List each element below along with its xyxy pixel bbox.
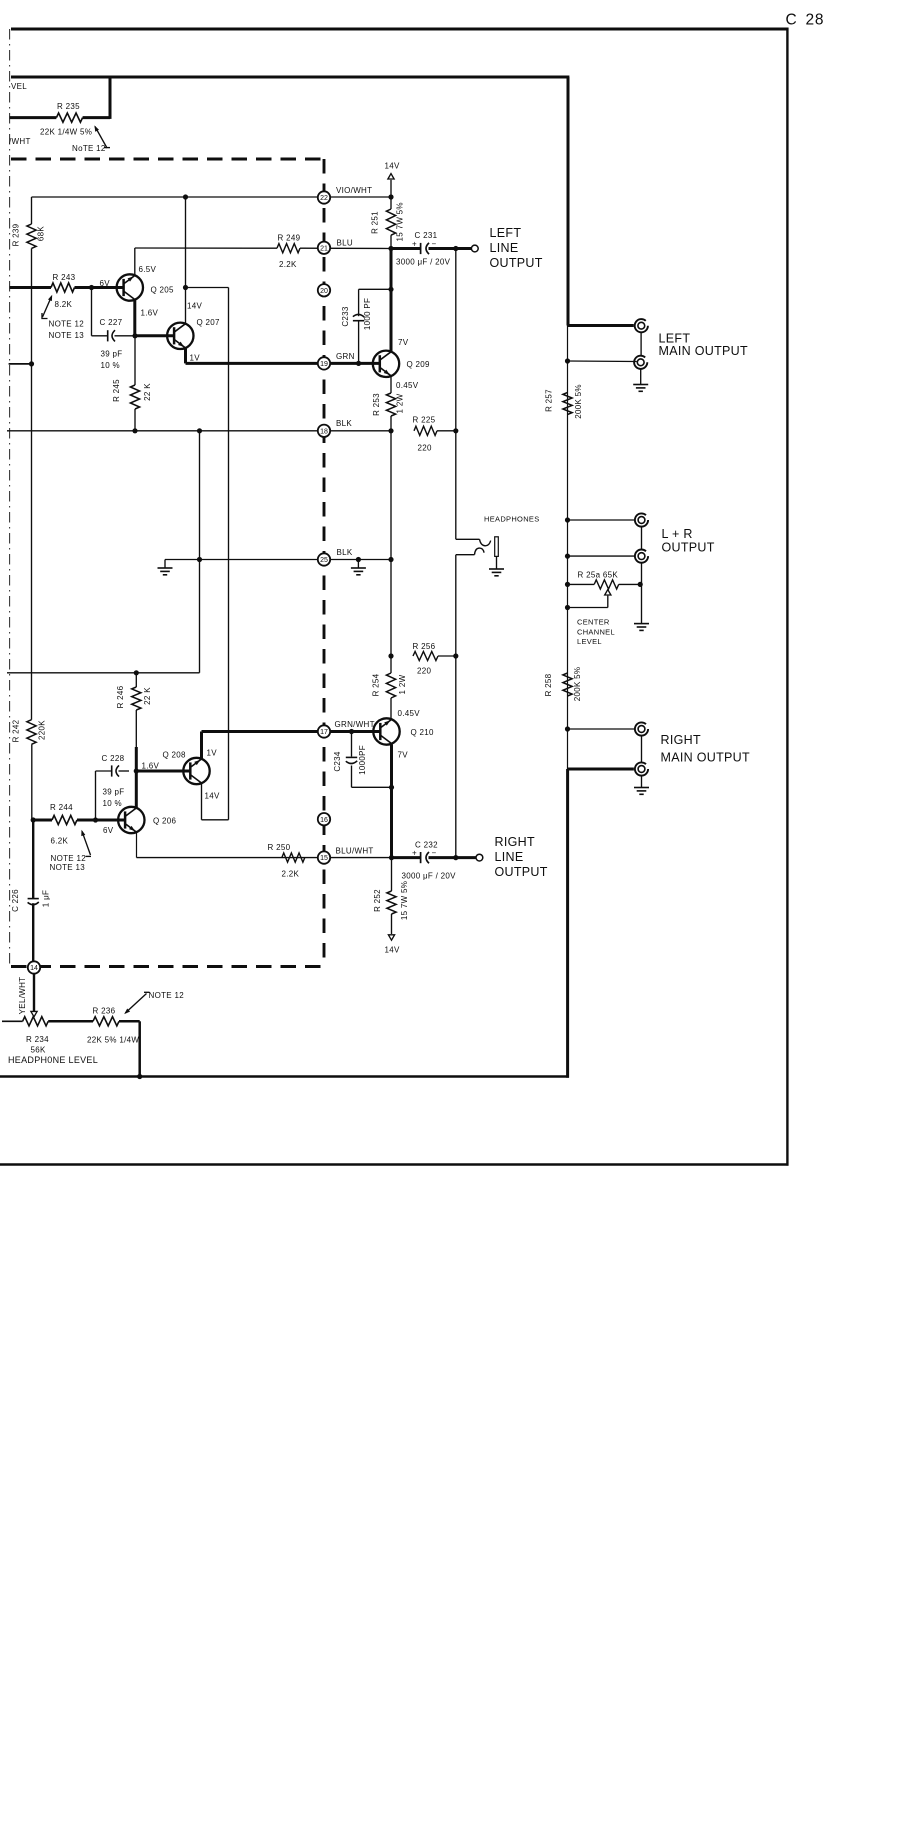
wire RIGHT MAIN hot [568,768,634,771]
label Q208 1V [207,749,218,758]
svg-text:R 251: R 251 [371,211,380,234]
svg-text:OUTPUT: OUTPUT [495,865,548,879]
svg-text:2.2K: 2.2K [282,870,300,879]
node junction L+R top [565,517,570,522]
label Q209 7V [398,338,409,347]
svg-text:R 225: R 225 [413,416,436,425]
label C231 value [396,258,451,267]
label NOTE12 Q206 [51,854,87,863]
label C233 value [363,298,372,330]
node junction pot right [638,582,643,587]
node terminal 19 [318,357,330,369]
svg-text:LINE: LINE [495,850,524,864]
power 14V arrow bottom [388,935,394,940]
svg-text:6V: 6V [100,279,111,288]
svg-text:1000PF: 1000PF [358,745,367,775]
wire pot wiper [568,590,611,608]
transistor Q205 [117,274,143,300]
label R258 name [544,673,553,696]
capacitor C228 [96,765,130,776]
svg-text:R 252: R 252 [373,889,382,912]
svg-text:+: + [412,848,417,857]
svg-text:25: 25 [320,557,328,564]
svg-text:14V: 14V [187,302,202,311]
resistor R242 [27,720,36,745]
label R236 value [87,1036,139,1045]
transistor Q210 [373,718,399,744]
svg-text:LEFT: LEFT [490,226,522,240]
label C227 39pF [101,350,123,359]
svg-text:NOTE 12: NOTE 12 [49,320,85,329]
svg-text:1.6V: 1.6V [141,309,159,318]
wire L+R top [568,519,636,521]
svg-text:16: 16 [320,817,328,824]
wire NOTE leader Q205 [42,295,52,319]
svg-text:R 246: R 246 [116,685,125,708]
wire NOTE12 leader [94,125,110,148]
label NOTE13 Q206 [50,863,86,872]
svg-text:3000 μF / 20V: 3000 μF / 20V [396,258,451,267]
label Q205 6V [100,279,111,288]
label R225 value [418,443,432,452]
label BLK 18 [336,419,352,428]
node junction gnd right [356,557,361,562]
wire l+r jack link [641,527,643,550]
wire headphone vertical upper [455,249,457,540]
wire BLU/WHT line [137,857,392,859]
label RIGHT MAIN OUTPUT [661,733,750,765]
transistor Q207 [167,323,193,349]
label GRN/WHT [335,720,375,729]
svg-text:C 232: C 232 [415,841,438,850]
label R235 value [40,128,92,137]
node junction gnd drop [197,428,202,433]
ground LEFT MAIN [633,369,648,391]
wire left main jack link [640,333,642,356]
node junction C231 out [453,246,458,251]
label Q207 name [197,318,221,327]
resistor R236 [48,1017,140,1026]
label R250 name [268,843,291,852]
wire right bus lower thick [566,769,569,1078]
resistor R257 [563,393,572,415]
svg-text:1000 PF: 1000 PF [363,298,372,330]
resistor R253 [386,376,395,431]
label R243 name [53,273,76,282]
svg-text:R 236: R 236 [93,1007,116,1016]
svg-text:OUTPUT: OUTPUT [662,541,715,555]
label Q205 6.5V [139,265,157,274]
node terminal 22 [318,191,330,203]
node terminal 14 [28,961,40,973]
svg-text:Q 210: Q 210 [411,728,435,737]
svg-text:2.2K: 2.2K [279,260,297,269]
label Q210 name [411,728,435,737]
svg-text:L + R: L + R [662,527,693,541]
jack L+R bottom [635,550,648,563]
label C232 plus [412,848,417,857]
node junction R246 top [134,670,139,675]
node junction left main gnd [565,358,570,363]
capacitor C226 [28,820,39,961]
resistor R249 [277,244,300,253]
wire right border [786,28,788,1166]
label Q205 name [151,286,175,295]
svg-text:Q 209: Q 209 [407,360,431,369]
power 14V arrow top [388,174,394,197]
svg-text:6V: 6V [103,826,114,835]
node junction R251 top [388,194,393,199]
svg-text:22 K: 22 K [143,687,152,705]
svg-text:1.6V: 1.6V [142,761,160,770]
svg-text:21: 21 [320,245,328,252]
svg-text:1V: 1V [207,749,218,758]
node junction R244 left [31,817,36,822]
svg-text:NOTE 12: NOTE 12 [51,854,87,863]
svg-text:22 K: 22 K [143,383,152,401]
svg-text:R 239: R 239 [12,223,21,246]
resistor R239 [27,224,36,248]
wire BLK line 25 [165,559,391,561]
node junction pot left [565,582,570,587]
transistor Q208 [183,758,209,784]
label R252 name [373,889,382,912]
label Q206 name [153,817,177,826]
potentiometer R25a [568,580,641,589]
label Q207 14V [187,302,202,311]
label NOTE13 Q205 [49,331,85,340]
node junction bottom bus [137,1074,142,1079]
wire 14V drop upper [185,197,187,288]
svg-text:0.45V: 0.45V [398,709,421,718]
svg-text:C233: C233 [341,306,350,327]
svg-text:7V: 7V [398,751,409,760]
wire 14V to Q208 [202,819,229,821]
label RIGHT LINE OUTPUT [495,835,548,879]
label R246 name [116,685,125,708]
label C232 name [415,841,438,850]
svg-text:1 2W: 1 2W [396,393,405,413]
svg-text:Q 206: Q 206 [153,817,177,826]
svg-text:56K: 56K [31,1046,46,1055]
label R243 value [55,300,73,309]
label Q206 6V [103,826,114,835]
node junction gnd line [197,557,202,562]
capacitor C227 [92,330,136,341]
label NOTE12 R236 [149,991,185,1000]
resistor R244 [33,815,125,824]
jack RIGHT MAIN gnd [635,722,648,735]
svg-text:BLU/WHT: BLU/WHT [336,846,374,855]
label C233 name [341,306,350,327]
svg-text:RIGHT: RIGHT [661,733,701,747]
svg-text:CHANNEL: CHANNEL [577,627,615,636]
svg-text:C 227: C 227 [100,318,123,327]
wire right bus middle [567,326,569,770]
svg-text:14: 14 [30,965,38,972]
wire LEFT MAIN gnd [568,360,637,363]
svg-text:10 %: 10 % [103,799,122,808]
label C228 10pct [103,799,122,808]
svg-text:C 231: C 231 [415,231,438,240]
label GRN [336,352,355,361]
wire R254 column [390,431,392,673]
wire Q207 collector [185,288,187,325]
node junction 14V rail [183,194,188,199]
wire RIGHT MAIN gnd [568,728,636,730]
label R242 value [38,720,47,740]
resistor R245 [130,336,139,431]
label R249 name [278,233,301,242]
label R246 value [143,687,152,705]
capacitor C234 [346,732,392,788]
label L+R OUTPUT [662,527,715,555]
svg-text:R 243: R 243 [53,273,76,282]
svg-text:15: 15 [320,855,328,862]
label R25a [578,571,619,580]
node junction R256 right [453,653,458,658]
svg-text:NOTE 12: NOTE 12 [149,991,185,1000]
svg-text:LINE: LINE [490,241,519,255]
wire GRN emitter line [186,362,380,365]
node junction C233 bottom [356,361,361,366]
svg-text:14V: 14V [205,792,220,801]
label R250 value [282,870,300,879]
node terminal 17 [318,725,330,737]
wire Q208 emitter [200,732,203,760]
label C234 value [358,745,367,775]
label R234 value [31,1046,46,1055]
label R258 value [573,667,582,702]
wire dashed module box top [11,158,326,161]
wire Q205 collector up [134,248,136,276]
svg-text:22K 1/4W 5%: 22K 1/4W 5% [40,128,92,137]
svg-text:R 257: R 257 [545,389,554,412]
resistor R243 [10,283,124,292]
label Q208 1.6V [142,761,160,770]
wire 14V branch [186,287,229,289]
svg-text:R 242: R 242 [12,719,21,742]
svg-text:GRN: GRN [336,352,355,361]
svg-text:17: 17 [320,729,328,736]
label R245 name [112,379,121,402]
svg-text:C 228: C 228 [102,754,125,763]
wire Q205 1.6V node [135,300,174,336]
wire R235 riser [109,77,112,119]
ground headphone [489,556,504,575]
label C228 39pF [103,788,125,797]
svg-text:220: 220 [418,443,432,452]
wire L+R gnd drop [0,0,1,1]
label R257 name [545,389,554,412]
label R239 value [37,226,46,241]
label R256 name [413,642,436,651]
jack L+R top [635,513,648,526]
svg-text:C 226: C 226 [11,889,20,912]
wire L+R bottom [568,555,636,557]
svg-text:R 258: R 258 [544,673,553,696]
svg-text:1 μF: 1 μF [42,890,51,907]
wire to left line terminal [456,247,472,250]
label CENTER CHANNEL LEVEL [577,618,615,647]
label LEFT MAIN OUTPUT [659,332,748,359]
node junction R253 bottom [388,428,393,433]
node junction R256 left [388,653,393,658]
wire Q207 emitter [184,348,187,364]
svg-text:HEADPH0NE LEVEL: HEADPH0NE LEVEL [8,1055,98,1065]
label C231 name [415,231,438,240]
node junction right main top [565,726,570,731]
svg-text:R 244: R 244 [50,803,73,812]
label LEFT LINE OUTPUT [490,226,543,270]
label C227 name [100,318,123,327]
svg-text:YEL/WHT: YEL/WHT [18,977,27,1015]
svg-text:200K 5%: 200K 5% [574,384,583,419]
svg-text:7V: 7V [398,338,409,347]
svg-text:3000 μF / 20V: 3000 μF / 20V [402,872,457,881]
label R242 name [12,719,21,742]
jack RIGHT MAIN hot [635,762,648,775]
jack LEFT MAIN gnd [634,356,647,369]
svg-text:39 pF: 39 pF [103,788,125,797]
svg-text:MAIN OUTPUT: MAIN OUTPUT [661,751,750,765]
svg-text:−: − [432,848,437,857]
resistor R250 [282,853,305,862]
label R254 name [372,673,381,696]
capacitor C233 [353,289,391,363]
svg-text:R 245: R 245 [112,379,121,402]
wire feedback vertical mid [31,248,33,719]
node junction C232 out [453,855,458,860]
label R244 value [51,837,69,846]
svg-text:Q 207: Q 207 [197,318,221,327]
label Q210 0.45V [398,709,421,718]
node terminal 16 [318,813,330,825]
node page-edge chain line [9,29,11,966]
transistor Q206 [118,807,144,833]
svg-text:14V: 14V [385,162,400,171]
svg-text:VIO/WHT: VIO/WHT [336,186,372,195]
svg-text:BLK: BLK [337,548,353,557]
label C231 minus [432,239,437,248]
pin RIGHT LINE terminal [476,854,483,861]
svg-text:15 7W 5%: 15 7W 5% [400,881,409,920]
wire right bus upper thick [567,77,570,326]
svg-text:NOTE 13: NOTE 13 [50,863,86,872]
label 14V top [385,162,400,171]
svg-text:R 249: R 249 [278,233,301,242]
wire C228 left drop [95,771,97,820]
svg-text:NоTE 12: NоTE 12 [72,144,106,153]
node junction R245 bottom [132,428,137,433]
svg-text:R 254: R 254 [372,673,381,696]
node junction 14V drop [183,285,188,290]
label R252 value [400,881,409,920]
svg-text:14V: 14V [385,946,400,955]
wire Q208 collector [201,783,203,820]
svg-text:+: + [412,239,417,248]
wire 1.6V node R [136,747,190,808]
ground right mid [351,560,366,575]
svg-text:68K: 68K [37,226,46,241]
wire Q209 collector [390,249,393,353]
svg-text:/WHT: /WHT [9,137,31,146]
svg-text:18: 18 [320,428,328,435]
wire right main jack link [641,736,643,763]
svg-text:GRN/WHT: GRN/WHT [335,720,375,729]
wire inner top bus [11,76,569,79]
svg-text:200K 5%: 200K 5% [573,667,582,702]
label LEVEL partial [11,82,27,91]
label HEADPHONE LEVEL [8,1055,98,1065]
label C 28 [786,12,825,29]
label C234 name [333,751,342,772]
svg-text:22K 5% 1/4W: 22K 5% 1/4W [87,1036,139,1045]
label R244 name [50,803,73,812]
node terminal 21 [318,242,330,254]
svg-text:19: 19 [320,361,328,368]
node junction R225 right [453,428,458,433]
wire stub left [9,363,32,365]
wire 14V rail vertical [228,288,230,820]
label Q209 name [407,360,431,369]
wire Q206 emitter [136,832,138,858]
svg-text:CENTER: CENTER [577,618,610,627]
node terminal 18 [318,425,330,437]
label Q205 1.6V [141,309,159,318]
label C226 name [11,889,20,912]
svg-text:RIGHT: RIGHT [495,835,535,849]
wire LEFT MAIN hot [568,324,634,327]
node terminal 15 [318,851,330,863]
label R251 value [396,202,405,241]
svg-text:VEL: VEL [11,82,27,91]
node junction R254 line [388,557,393,562]
wire VIO/WHT line [32,196,392,198]
capacitor C232 [392,852,456,863]
svg-text:10 %: 10 % [101,361,120,370]
label C231 plus [412,239,417,248]
node terminal 20 [318,284,330,296]
svg-text:R 235: R 235 [57,102,80,111]
svg-text:20: 20 [320,288,328,295]
label R225 name [413,416,436,425]
node junction C234 bottom [389,785,394,790]
node junction C233 top [388,287,393,292]
node junction 1.6V R [134,768,139,773]
label R254 value [398,674,407,694]
wire C227 base drop [91,288,93,336]
ground L+R [634,563,649,631]
wire dashed module box bottom [11,965,326,968]
label Q208 14V [205,792,220,801]
ground RIGHT MAIN [634,776,649,795]
pin headphone plug [495,537,499,557]
svg-text:R 234: R 234 [26,1035,49,1044]
label C228 name [102,754,125,763]
wire dashed module box right [323,159,326,967]
potentiometer R234 [2,1017,48,1026]
svg-text:OUTPUT: OUTPUT [490,256,543,270]
wire headphone contact top [456,539,491,546]
svg-text:1 2W: 1 2W [398,674,407,694]
svg-text:28: 28 [806,12,825,29]
label C232 value [402,872,457,881]
node junction C228 base [93,817,98,822]
svg-text:Q 208: Q 208 [163,750,187,759]
node junction wiper [565,605,570,610]
label R251 name [371,211,380,234]
